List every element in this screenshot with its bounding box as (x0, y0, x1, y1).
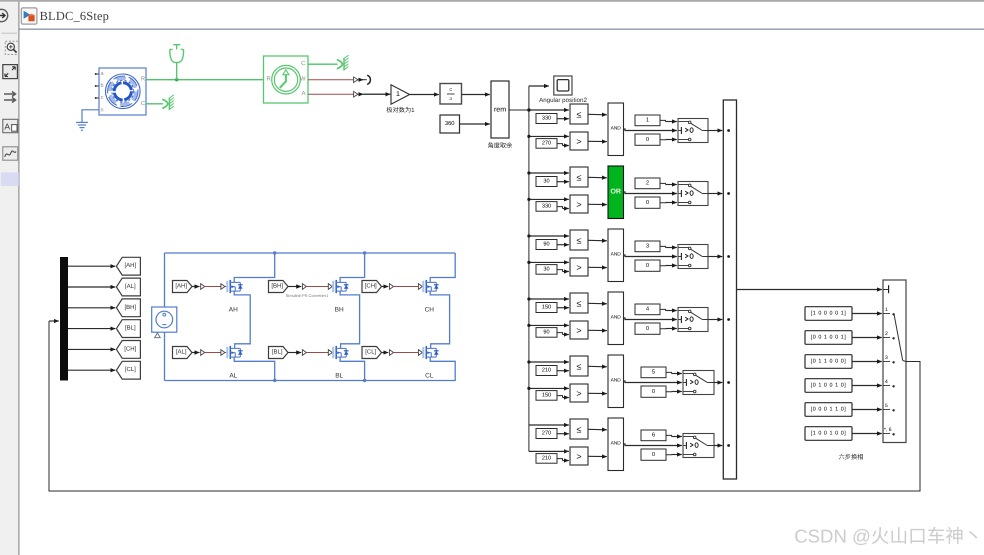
wire [AH] to converter (192, 286, 200, 288)
svg-text:270: 270 (542, 431, 551, 437)
PS line sensor W (308, 79, 353, 81)
constant 360 (440, 115, 460, 133)
svg-text:CL: CL (425, 372, 434, 379)
svg-text:CH: CH (425, 306, 435, 313)
constant 0 (5) (641, 386, 666, 397)
mux port dot 1 (727, 129, 730, 132)
sidebar icon zoom-select (5, 41, 18, 54)
logic AND4 (608, 292, 624, 345)
PS line sensor A (308, 93, 353, 95)
goto tag [CH] (116, 341, 140, 359)
rail junction A bottom (273, 379, 276, 382)
svg-text:3: 3 (646, 242, 649, 249)
wire const to LE4 (557, 307, 569, 309)
svg-text:[CL]: [CL] (365, 349, 376, 356)
wire [CH] to converter (382, 286, 389, 288)
svg-text:150: 150 (542, 393, 551, 399)
bottom supply rail (165, 380, 456, 382)
wire const to GT6 (557, 459, 563, 461)
scope block (554, 76, 572, 95)
svg-text:[AL]: [AL] (125, 283, 136, 290)
wire const0 to switch (666, 391, 672, 393)
wire const0 to switch (660, 202, 666, 204)
wire const to LE6 (557, 433, 569, 435)
mosfet CH (422, 280, 438, 293)
rail junction B bottom (363, 379, 366, 382)
wire [0 0 0 1 1 0] to multiport (852, 409, 882, 411)
constant 30 (536, 265, 557, 275)
svg-text:6: 6 (652, 431, 655, 438)
wire GT4 to logic (588, 329, 607, 331)
svg-text:A: A (301, 90, 305, 97)
wire const2 to switch (660, 183, 666, 184)
svg-text:330: 330 (542, 116, 551, 122)
compare LE4 (570, 293, 588, 313)
phase node C (430, 291, 449, 348)
compare GT2 (570, 195, 588, 213)
DC voltage source (152, 307, 177, 332)
constant 30 (536, 177, 557, 187)
wire motor C to rotational reference (146, 103, 163, 105)
wire [0 1 0 0 1 0] to multiport (852, 385, 882, 387)
compare LE3 (570, 230, 588, 250)
PS wire [CH] (394, 286, 419, 288)
svg-text:150: 150 (542, 305, 551, 311)
svg-text:[CL]: [CL] (125, 366, 136, 373)
wire [AL] to converter (192, 352, 200, 354)
wire demux out [AH] (68, 265, 115, 267)
mux (vector concatenate) (723, 100, 736, 479)
wire W to terminator (358, 79, 363, 81)
wire logic to switch1 (624, 129, 677, 131)
top gray strip (0, 0, 984, 2)
svg-text:角度取余: 角度取余 (488, 142, 514, 150)
wire rad2deg to rem (462, 94, 490, 96)
sidebar icon swatch (1, 172, 19, 186)
svg-text:[BH]: [BH] (124, 304, 136, 311)
svg-text:0: 0 (652, 388, 655, 395)
wire switch5 to mux (714, 382, 722, 384)
compare GT5 (570, 384, 588, 402)
svg-text:AH: AH (229, 306, 238, 313)
svg-text:rem: rem (494, 107, 506, 114)
wire trunk to GT5 (529, 387, 569, 389)
compare GT6 (570, 447, 588, 465)
top supply rail (165, 252, 456, 254)
svg-text:BLDC_6Step: BLDC_6Step (40, 9, 109, 23)
svg-text:2: 2 (885, 331, 888, 337)
simulink-ps converter [AH] (201, 284, 205, 290)
svg-text:C: C (301, 60, 306, 67)
rail junction B top (363, 251, 366, 254)
svg-text:c: c (101, 95, 104, 101)
svg-text:AND: AND (611, 378, 622, 384)
trunk to scope (529, 85, 549, 87)
wire GT2 to logic (588, 203, 607, 205)
feedback wire (49, 321, 920, 491)
svg-text:30: 30 (543, 179, 549, 185)
svg-text:360: 360 (445, 120, 455, 127)
wire [BL] to converter (288, 352, 301, 354)
wire const to GT4 (557, 333, 563, 335)
svg-text:*, 6: *, 6 (884, 427, 892, 433)
wire LE1 to logic (588, 113, 607, 116)
constant [0 0 0 1 1 0] (805, 403, 852, 417)
svg-text:[AH]: [AH] (124, 262, 136, 269)
drain wire BH (340, 253, 365, 282)
sidebar icon signal-curve (3, 147, 18, 160)
mux port dot 2 (727, 192, 730, 195)
multiport switch (883, 280, 906, 443)
wire motor R to sensor R (green) (146, 79, 264, 81)
wire trunk to LE1 (529, 109, 569, 111)
left rail lower (164, 332, 166, 380)
svg-text:C: C (141, 100, 145, 107)
svg-text:极对数为1: 极对数为1 (386, 106, 415, 114)
from tag [AL] (173, 347, 193, 359)
simulink-ps converter [CH] (390, 284, 394, 290)
svg-text:[0 1 1 0 0 0]: [0 1 1 0 0 0] (811, 359, 847, 365)
svg-text:[CH]: [CH] (365, 283, 377, 290)
wire mux to multiport switch (737, 289, 882, 291)
wire [CL] to converter (382, 352, 389, 354)
svg-text:1: 1 (396, 91, 400, 98)
svg-text:R: R (267, 76, 272, 83)
from tag [AH] (173, 281, 193, 293)
BLDC motor block (99, 68, 146, 115)
wire const to LE2 (557, 181, 569, 183)
logic AND3 (608, 229, 624, 282)
goto tag [BH] (116, 299, 140, 317)
svg-text:AL: AL (229, 372, 237, 379)
constant 330 (536, 202, 557, 212)
svg-text:>: > (576, 199, 581, 209)
trunk bottom corner to GT6 (529, 450, 569, 452)
logic AND5 (608, 355, 624, 408)
svg-text:R: R (141, 77, 145, 83)
unit conversion block (440, 84, 462, 105)
switch4 (678, 308, 708, 332)
svg-text:2: 2 (646, 179, 649, 186)
wire const3 to switch (660, 246, 666, 247)
svg-text:30: 30 (543, 267, 549, 273)
wire LE2 to logic (588, 176, 607, 179)
wire sensor C to rotational reference (308, 63, 338, 65)
svg-text:AND: AND (611, 315, 622, 321)
svg-text:OR: OR (610, 189, 621, 196)
svg-text:[CH]: [CH] (124, 345, 136, 352)
gate input triangle [BL] (328, 350, 332, 356)
svg-text:≤: ≤ (577, 235, 582, 245)
switch3 (678, 245, 708, 269)
node junction at inertia tap (175, 78, 178, 81)
switch6 (683, 434, 714, 458)
svg-text:210: 210 (542, 368, 551, 374)
switch2 (678, 182, 708, 206)
logic AND6 (608, 418, 624, 471)
svg-text:≤: ≤ (577, 298, 582, 308)
switch5 (683, 371, 714, 395)
simulink-ps converter [CL] (390, 350, 394, 356)
wire motor n to ground (82, 110, 99, 123)
wire trunk to GT6 (529, 450, 569, 452)
compare GT1 (570, 132, 588, 150)
wire switch3 to mux (708, 256, 722, 258)
delta marker (155, 333, 161, 338)
wire const6 to switch (666, 435, 672, 436)
wire trunk to LE5 (529, 361, 569, 363)
simulink-ps converter [BH] (302, 284, 306, 290)
goto tag [BL] (116, 320, 140, 338)
wire const to LE1 (557, 118, 569, 120)
svg-text:330: 330 (542, 204, 551, 210)
wire const4 to switch (660, 309, 666, 310)
constant 270 (536, 429, 557, 439)
mux port dot 4 (727, 318, 730, 321)
sidebar icon arrows (4, 92, 16, 103)
wire const to GT5 (557, 396, 563, 398)
compare LE1 (570, 104, 588, 124)
mux port dot 6 (727, 444, 730, 447)
wire switch2 to mux (708, 193, 722, 195)
svg-text:[BL]: [BL] (272, 349, 283, 356)
wire const to GT3 (557, 270, 563, 272)
svg-text:≤: ≤ (577, 109, 582, 119)
svg-text:[1 0 0 0 0 1]: [1 0 0 0 0 1] (811, 311, 847, 317)
svg-text:5: 5 (885, 403, 888, 409)
svg-text:270: 270 (542, 141, 551, 147)
motor port stubs a b c (95, 71, 145, 114)
svg-text:[BL]: [BL] (125, 325, 136, 332)
wire logic to switch5 (624, 381, 682, 383)
PS wire [CL] (394, 352, 419, 354)
constant 1 (635, 115, 660, 126)
svg-text:Angular position2: Angular position2 (539, 97, 587, 104)
from tag [CH] (362, 281, 382, 293)
wire GT3 to logic (588, 266, 607, 268)
wire demux out [BH] (68, 307, 115, 309)
mechanical rotational reference (motor side) (162, 95, 174, 110)
sidebar divider (2, 32, 18, 34)
svg-text:>: > (576, 262, 581, 272)
svg-text:AND: AND (611, 252, 622, 258)
mosfet CL (422, 346, 438, 359)
left rail upper (164, 253, 166, 307)
wire const5 to switch (666, 372, 672, 373)
wire const0 to switch (660, 328, 666, 330)
wire LE6 to logic (588, 428, 607, 431)
svg-text:90: 90 (543, 330, 549, 336)
svg-text:1: 1 (646, 117, 649, 123)
svg-text:b: b (100, 83, 103, 89)
mosfet AH (226, 280, 242, 293)
constant 3 (635, 241, 660, 252)
constant 0 (2) (635, 197, 660, 208)
rem function block (491, 81, 509, 138)
svg-text:AND: AND (611, 441, 622, 447)
goto tag [AL] (116, 278, 140, 296)
wire const0 to switch (660, 265, 666, 267)
wire demux out [CH] (68, 348, 115, 350)
svg-text:>: > (576, 136, 581, 146)
source wire BL (340, 357, 365, 380)
mux port dot 3 (727, 255, 730, 258)
wire trunk to GT1 (529, 135, 569, 137)
electrical reference ground (76, 122, 88, 130)
constant 5 (641, 367, 666, 378)
from tag [BH] (269, 281, 289, 293)
left sidebar palette (0, 2, 19, 555)
wire LE3 to logic (588, 239, 607, 242)
constant 90 (536, 240, 557, 250)
svg-text:≤: ≤ (577, 424, 582, 434)
wire demux out [AL] (68, 286, 115, 288)
compare GT4 (570, 321, 588, 339)
mosfet BL (332, 346, 348, 359)
wire LE5 to logic (588, 365, 607, 368)
wire gain to rad2deg (410, 94, 439, 96)
wire switch4 to mux (708, 319, 722, 321)
svg-text:1: 1 (885, 307, 888, 313)
wire logic to switch6 (624, 444, 682, 446)
constant 0 (3) (635, 260, 660, 271)
wire trunk to LE3 (529, 235, 569, 237)
constant 150 (536, 303, 557, 313)
inertia block (green cup) (170, 45, 184, 80)
phase node A (234, 291, 250, 348)
wire trunk to LE4 (529, 298, 569, 300)
svg-text:≤: ≤ (577, 172, 582, 182)
wire trunk to GT4 (529, 324, 569, 326)
rotational motion sensor block (264, 56, 309, 103)
simulink-ps converter [BL] (302, 350, 306, 356)
svg-text:AND: AND (611, 126, 622, 132)
constant 150 (536, 391, 557, 401)
gate input triangle [CH] (418, 284, 422, 290)
svg-text:Simulink-PS Converter1: Simulink-PS Converter1 (286, 293, 329, 298)
compare LE2 (570, 167, 588, 187)
constant 6 (641, 430, 666, 441)
constant 0 (4) (635, 323, 660, 334)
wire switch1 to mux (708, 130, 722, 132)
wire GT6 to logic (588, 455, 607, 457)
wire logic to switch4 (624, 318, 677, 320)
svg-text:[0 1 0 0 1 0]: [0 1 0 0 1 0] (811, 383, 847, 389)
compare LE5 (570, 356, 588, 376)
constant 270 (536, 139, 557, 149)
svg-text:≤: ≤ (577, 361, 582, 371)
model icon (21, 8, 37, 24)
PS-Simulink converter W (354, 77, 358, 83)
sidebar icon fit-view (3, 65, 18, 79)
logic OR2 (608, 166, 624, 219)
wire const to LE5 (557, 370, 569, 372)
wire trunk to GT3 (529, 261, 569, 263)
wire const to GT1 (557, 144, 563, 146)
PS-Simulink converter A (354, 91, 358, 97)
svg-text:210: 210 (542, 456, 551, 462)
wire demux out [BL] (68, 328, 115, 330)
wire rem to trunk (509, 109, 529, 111)
switch1 (678, 119, 708, 143)
svg-text:>: > (576, 325, 581, 335)
simulink-ps converter [AL] (201, 350, 205, 356)
from tag [CL] (362, 347, 382, 359)
PS wire [AL] (205, 352, 221, 354)
mechanical rotational reference (sensor side) (337, 55, 349, 70)
svg-text:[AH]: [AH] (175, 283, 187, 290)
wire [0 1 1 0 0 0] to multiport (852, 361, 882, 363)
trunk vertical (528, 86, 530, 451)
gate input triangle [AH] (221, 284, 225, 290)
wire demux out [CL] (68, 369, 115, 371)
wire trunk to LE6 (529, 424, 569, 426)
phase node B (340, 291, 360, 348)
wire 360 to rem (460, 123, 490, 125)
drain wire CH (430, 253, 455, 282)
wire const0 to switch (666, 454, 672, 456)
constant [1 0 0 1 0 0] (805, 427, 852, 441)
svg-text:CSDN @火山口车神丶: CSDN @火山口车神丶 (794, 526, 982, 547)
svg-text:0: 0 (646, 199, 649, 206)
constant 2 (635, 178, 660, 189)
source wire CL (430, 357, 455, 380)
from tag [BL] (269, 347, 289, 359)
gate input triangle [CL] (418, 350, 422, 356)
source wire AL (234, 357, 275, 380)
svg-text:4: 4 (885, 379, 888, 385)
svg-text:[1 0 0 1 0 0]: [1 0 0 1 0 0] (811, 431, 847, 437)
svg-text:3: 3 (885, 355, 888, 361)
constant [1 0 0 0 0 1] (805, 307, 852, 321)
goto tag [AH] (116, 257, 140, 275)
logic AND1 (608, 103, 624, 156)
goto tag [CL] (116, 361, 140, 379)
compare GT3 (570, 258, 588, 276)
svg-text:A: A (4, 121, 10, 131)
svg-text:[AL]: [AL] (176, 349, 187, 356)
wire [0 0 1 0 0 1] to multiport (852, 337, 882, 339)
svg-text:0: 0 (646, 325, 649, 332)
constant 0 (6) (641, 449, 666, 460)
svg-text:0: 0 (652, 451, 655, 458)
constant 210 (536, 366, 557, 376)
wire const to GT2 (557, 207, 563, 209)
rail junction A top (273, 251, 276, 254)
svg-text:BH: BH (335, 306, 344, 313)
junction rem/trunk (527, 108, 530, 111)
gate input triangle [AL] (221, 350, 225, 356)
wire const1 to switch (660, 120, 666, 121)
svg-text:>: > (576, 451, 581, 461)
wire A to gain (358, 93, 363, 95)
PS wire [AH] (205, 286, 221, 288)
svg-text:BL: BL (335, 372, 343, 379)
gain block (pole pairs = 1) (391, 85, 410, 104)
wire trunk to LE2 (529, 172, 569, 174)
constant 0 (1) (635, 134, 660, 145)
mosfet BH (332, 280, 348, 293)
demux (60, 257, 68, 381)
constant [0 1 1 0 0 0] (805, 355, 852, 369)
constant [0 0 1 0 0 1] (805, 331, 852, 345)
wire GT5 to logic (588, 392, 607, 394)
sidebar icon annotation (3, 119, 18, 132)
sidebar icon back-arrow (0, 9, 8, 21)
svg-text:π: π (448, 97, 453, 100)
wire const to LE3 (557, 244, 569, 246)
constant 4 (635, 304, 660, 315)
